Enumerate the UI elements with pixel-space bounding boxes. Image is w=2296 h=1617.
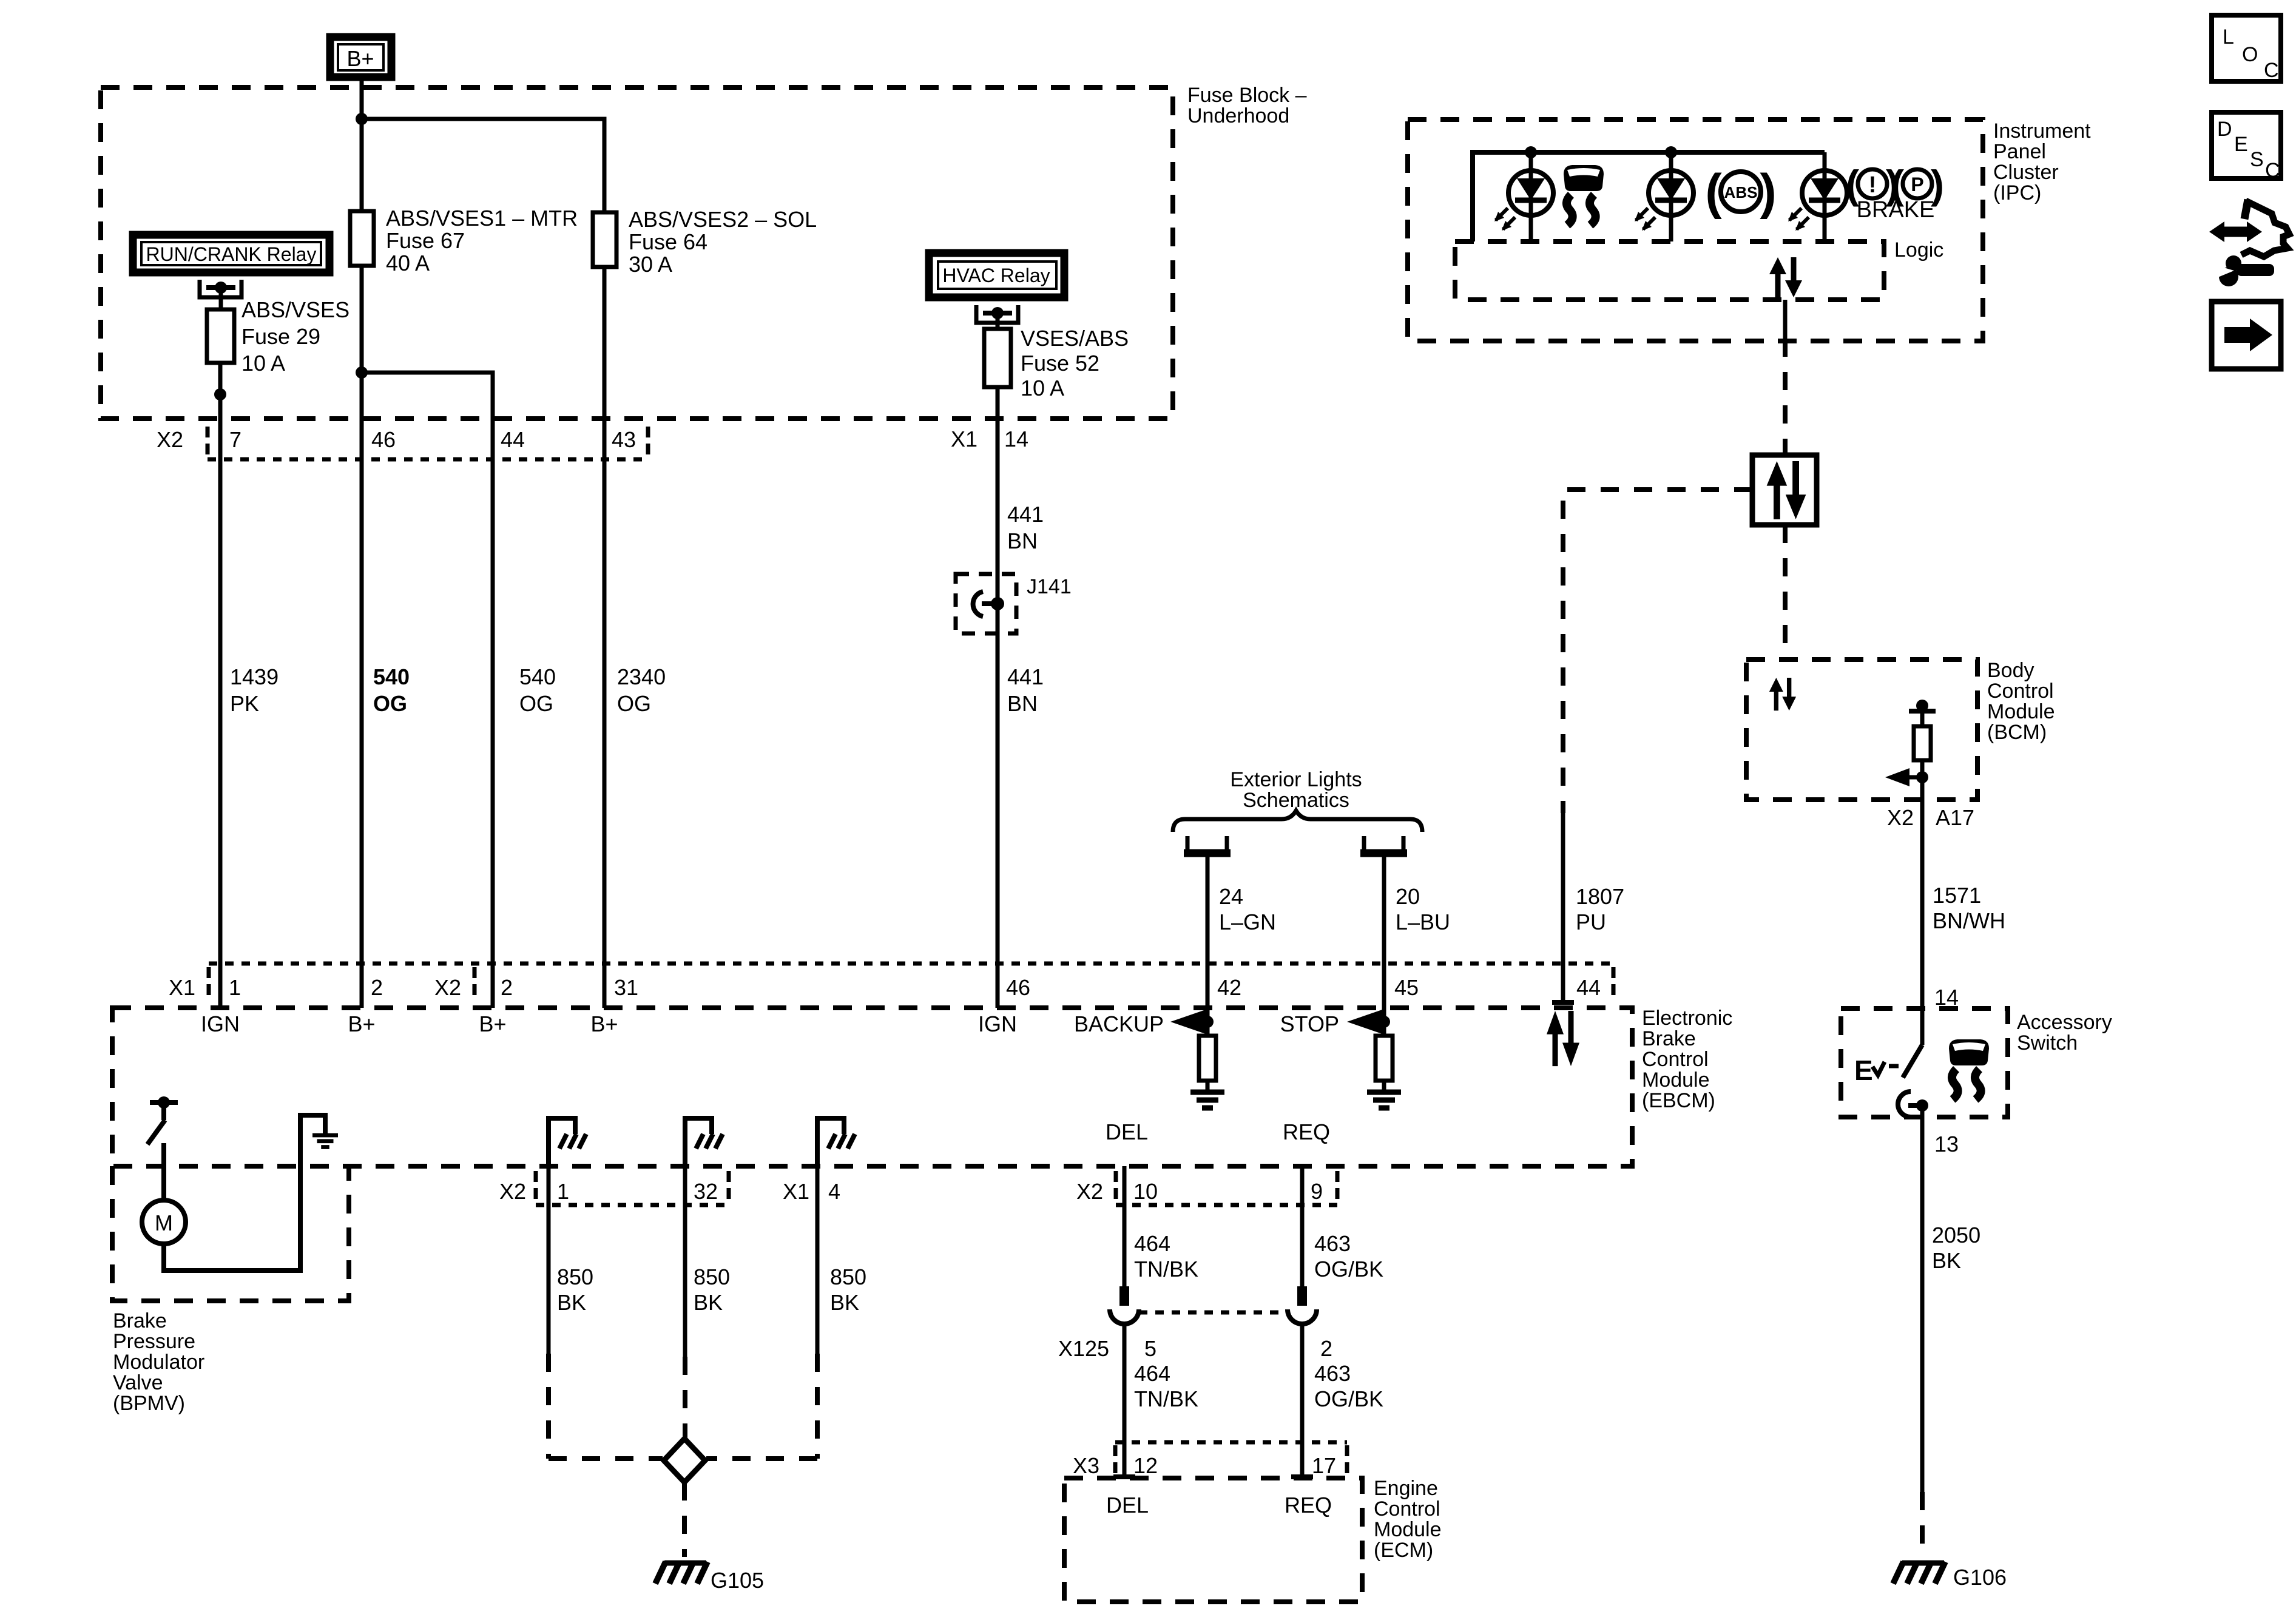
EBCM serial data arrows [1547, 1011, 1579, 1066]
svg-text:4: 4 [828, 1179, 840, 1204]
svg-text:BK: BK [694, 1290, 723, 1315]
svg-text:31: 31 [614, 975, 638, 1000]
svg-text:5: 5 [1144, 1336, 1156, 1361]
svg-text:X125: X125 [1058, 1336, 1109, 1361]
svg-text:Module: Module [1374, 1518, 1442, 1541]
IPC logic dashed box [1455, 241, 1884, 300]
svg-text:540: 540 [373, 664, 410, 689]
svg-text:1571: 1571 [1933, 883, 1981, 908]
brace exterior lights [1173, 811, 1422, 832]
svg-text:Logic: Logic [1894, 238, 1943, 262]
wire 463 OG/BK upper [1302, 1166, 1383, 1288]
wire 540 OG pin46 to EBCM [362, 419, 410, 1008]
margin icon diagnostic car wrench [2209, 200, 2289, 286]
svg-text:Underhood: Underhood [1187, 104, 1289, 127]
svg-text:Control: Control [1642, 1048, 1709, 1071]
svg-text:Engine: Engine [1374, 1477, 1438, 1500]
svg-text:ABS/VSES2 – SOL: ABS/VSES2 – SOL [629, 207, 817, 232]
IPC lamp supply bus [1473, 152, 1825, 241]
svg-text:44: 44 [1576, 975, 1601, 1000]
wire 441 BN upper segment [998, 419, 1044, 574]
wire LED2 [1669, 152, 1673, 241]
svg-text:850: 850 [557, 1264, 593, 1289]
wire fuse 67 to pin 46 [360, 266, 364, 419]
wire 2340 OG pin43 to EBCM [604, 419, 666, 1008]
svg-text:540: 540 [519, 664, 556, 689]
svg-text:(EBCM): (EBCM) [1642, 1089, 1715, 1112]
svg-text:BN: BN [1007, 528, 1038, 553]
svg-text:(IPC): (IPC) [1993, 181, 2041, 204]
wire to pump motor [161, 1143, 166, 1201]
svg-text:ABS/VSES1 – MTR: ABS/VSES1 – MTR [386, 206, 578, 231]
connector row fuse block X2/X1 [157, 427, 1028, 459]
ground G105 [655, 1562, 764, 1593]
svg-text:Cluster: Cluster [1993, 161, 2059, 184]
svg-text:Pressure: Pressure [113, 1330, 195, 1353]
svg-text:24: 24 [1219, 884, 1243, 909]
HVAC relay output terminal bracket [976, 305, 1018, 329]
svg-text:X2: X2 [499, 1179, 526, 1204]
svg-text:X2: X2 [1887, 805, 1914, 830]
splice J141 [956, 574, 1072, 633]
svg-text:A17: A17 [1936, 805, 1974, 830]
wire motor return loop [164, 1115, 325, 1271]
ground lead 3 flag [817, 1118, 855, 1166]
icon traction control car [1564, 165, 1604, 225]
icon brake warning (!) (P) BRAKE [1846, 162, 1944, 223]
svg-text:E: E [2234, 133, 2248, 156]
connector stub backup lamp feed [1184, 836, 1231, 853]
svg-text:7: 7 [229, 427, 241, 452]
power symbol B+ [330, 37, 391, 77]
svg-text:850: 850 [830, 1264, 866, 1289]
svg-text:30 A: 30 A [629, 252, 672, 277]
svg-text:): ) [1760, 164, 1776, 220]
splice diamond ground [664, 1439, 705, 1482]
svg-text:Accessory: Accessory [2017, 1011, 2112, 1034]
LED1 traction indicator [1494, 170, 1553, 231]
switch pump pressure contact [147, 1096, 178, 1144]
fuse F52 VSES/ABS [984, 326, 1129, 400]
svg-text:Control: Control [1987, 680, 2054, 703]
svg-text:C: C [2264, 59, 2279, 82]
svg-text:TN/BK: TN/BK [1134, 1386, 1198, 1411]
svg-text:464: 464 [1134, 1361, 1170, 1386]
node on wire 1439 [214, 388, 226, 400]
svg-text:463: 463 [1314, 1361, 1351, 1386]
svg-text:L–BU: L–BU [1396, 910, 1450, 934]
svg-text:X2: X2 [1076, 1179, 1103, 1204]
switch accessory internals [1854, 1008, 1928, 1117]
svg-text:C: C [2265, 159, 2280, 182]
wire LED3 [1823, 152, 1827, 241]
svg-text:Modulator: Modulator [113, 1351, 204, 1374]
node bus at LED2 [1665, 146, 1677, 158]
svg-text:O: O [2242, 43, 2258, 66]
svg-text:42: 42 [1217, 975, 1241, 1000]
svg-text:IGN: IGN [978, 1011, 1017, 1036]
svg-text:Fuse 29: Fuse 29 [241, 324, 320, 349]
svg-text:BRAKE: BRAKE [1857, 197, 1935, 223]
svg-text:BK: BK [1932, 1248, 1961, 1273]
svg-text:463: 463 [1314, 1231, 1351, 1256]
svg-text:2: 2 [501, 975, 513, 1000]
svg-text:Fuse Block –: Fuse Block – [1187, 84, 1307, 107]
svg-text:X1: X1 [951, 427, 977, 451]
serial data interface box [1752, 455, 1817, 525]
svg-text:G106: G106 [1953, 1565, 2007, 1590]
svg-text:Control: Control [1374, 1497, 1440, 1521]
LED2 ABS indicator [1635, 170, 1693, 231]
ground internal backup [1190, 1092, 1224, 1108]
svg-text:S: S [2250, 148, 2264, 171]
EBCM dashed box [112, 1008, 1632, 1166]
wire dashed ground gather left [549, 1456, 663, 1461]
svg-text:B+: B+ [479, 1011, 506, 1036]
svg-text:HVAC Relay: HVAC Relay [942, 265, 1050, 286]
wire LED1 [1529, 152, 1533, 241]
svg-text:X2: X2 [434, 975, 461, 1000]
ground lead 2 flag [685, 1118, 723, 1166]
svg-text:BN/WH: BN/WH [1933, 908, 2005, 933]
svg-text:(: ( [1705, 164, 1722, 220]
connector BCM X2 A17 [1887, 805, 1974, 830]
svg-text:441: 441 [1007, 664, 1044, 689]
svg-text:E: E [1854, 1055, 1873, 1086]
wire 20 L-BU [1384, 857, 1450, 1022]
svg-text:13: 13 [1934, 1132, 1959, 1156]
wire dashed logic to interface [1783, 339, 1788, 455]
svg-text:X2: X2 [157, 427, 183, 452]
svg-text:RUN/CRANK Relay: RUN/CRANK Relay [146, 243, 317, 265]
BCM switch sense pullup [1885, 700, 1936, 800]
svg-text:J141: J141 [1027, 575, 1072, 598]
svg-text:Electronic: Electronic [1642, 1007, 1732, 1030]
label Brake Pressure Modulator Valve (BPMV) [113, 1309, 204, 1415]
ground pump internal [312, 1135, 338, 1147]
wire B+ feed [360, 77, 364, 211]
svg-text:Module: Module [1642, 1068, 1710, 1092]
svg-text:Brake: Brake [1642, 1027, 1696, 1050]
resistor backup pulldown [1199, 1022, 1216, 1092]
node fuse 67 branch [356, 366, 368, 379]
label Engine Control Module (ECM) [1374, 1477, 1442, 1562]
svg-text:DEL: DEL [1106, 1493, 1149, 1517]
wire bus to fuse 64 [362, 119, 604, 212]
connector row EBCM bottom X2 DEL/REQ [1076, 1171, 1337, 1205]
svg-text:X1: X1 [783, 1179, 809, 1204]
wire 1807 PU dashed from IPC [1552, 490, 1752, 1002]
wire 464 TN/BK lower [1113, 1324, 1198, 1477]
svg-text:2: 2 [371, 975, 383, 1000]
fuse F29 ABS/VSES [207, 297, 349, 376]
svg-text:Exterior Lights: Exterior Lights [1230, 768, 1362, 791]
label X125 row [1058, 1336, 1332, 1361]
fuse F67 ABS/VSES1-MTR [350, 206, 578, 275]
wire 24 L-GN [1207, 857, 1276, 1022]
inline connector X125 REQ [1288, 1286, 1317, 1324]
svg-text:M: M [155, 1210, 173, 1235]
svg-text:45: 45 [1394, 975, 1419, 1000]
wire dashed interface to BCM [1783, 525, 1788, 660]
svg-text:Valve: Valve [113, 1371, 163, 1394]
svg-text:17: 17 [1312, 1453, 1336, 1478]
svg-text:40 A: 40 A [386, 251, 430, 275]
svg-text:BK: BK [557, 1290, 586, 1315]
svg-text:Module: Module [1987, 700, 2055, 723]
connector row EBCM bottom grounds [499, 1171, 840, 1205]
wire dashed ground gather right [706, 1456, 817, 1461]
svg-text:464: 464 [1134, 1231, 1170, 1256]
wire 850 BK lead2 [685, 1166, 730, 1440]
ground lead 1 flag [549, 1118, 586, 1166]
svg-text:14: 14 [1934, 985, 1959, 1010]
svg-text:14: 14 [1004, 427, 1028, 451]
connector row EBCM top X1/X2 [169, 964, 1613, 1000]
label Instrument Panel Cluster (IPC) [1993, 120, 2091, 204]
svg-text:OG/BK: OG/BK [1314, 1257, 1383, 1281]
svg-text:X1: X1 [169, 975, 195, 1000]
svg-text:!: ! [1869, 172, 1877, 198]
svg-text:(BPMV): (BPMV) [113, 1392, 185, 1415]
label Fuse Block - Underhood [1187, 84, 1307, 127]
ECM dashed box [1064, 1478, 1362, 1602]
svg-text:B+: B+ [590, 1011, 618, 1036]
svg-text:PU: PU [1576, 910, 1606, 934]
svg-text:REQ: REQ [1285, 1493, 1332, 1517]
BPMV dashed box [112, 1166, 349, 1301]
ground internal stop [1367, 1092, 1401, 1108]
svg-text:441: 441 [1007, 502, 1044, 527]
svg-text:1807: 1807 [1576, 884, 1624, 909]
svg-text:2: 2 [1320, 1336, 1332, 1361]
wire 850 BK lead3 [817, 1166, 866, 1459]
svg-text:Switch: Switch [2017, 1031, 2078, 1055]
svg-text:Panel: Panel [1993, 140, 2046, 163]
svg-text:46: 46 [1006, 975, 1030, 1000]
label Electronic Brake Control Module (EBCM) [1642, 1007, 1732, 1112]
wire dashed splice to G105 [682, 1482, 687, 1557]
svg-text:1: 1 [557, 1179, 569, 1204]
svg-text:TN/BK: TN/BK [1134, 1257, 1198, 1281]
wire 1571 BN/WH [1922, 800, 2005, 1008]
svg-text:9: 9 [1311, 1179, 1323, 1204]
relay K HVAC Relay [929, 253, 1064, 297]
relay output terminal bracket [200, 280, 241, 309]
label Body Control Module (BCM) [1987, 659, 2055, 744]
svg-text:Fuse 52: Fuse 52 [1021, 351, 1099, 376]
svg-text:OG: OG [617, 691, 651, 716]
svg-text:Instrument: Instrument [1993, 120, 2091, 143]
svg-text:OG: OG [373, 691, 407, 716]
connector X125 dotted link [1139, 1311, 1288, 1315]
relay K RUN/CRANK Relay [133, 235, 329, 272]
svg-text:(BCM): (BCM) [1987, 721, 2047, 744]
svg-text:OG/BK: OG/BK [1314, 1386, 1383, 1411]
svg-text:2340: 2340 [617, 664, 666, 689]
wire 540 OG pin44 to EBCM [493, 419, 556, 1008]
STOP signal arrow [1280, 1010, 1390, 1036]
icon accessory switch car [1949, 1039, 1989, 1099]
svg-text:D: D [2217, 118, 2232, 141]
svg-text:20: 20 [1396, 884, 1420, 909]
node bus at LED1 [1525, 146, 1537, 158]
svg-text:P: P [1911, 174, 1923, 195]
svg-text:ABS/VSES: ABS/VSES [241, 297, 349, 322]
wire 2050 BK [1922, 1117, 1980, 1557]
fuse block underhood dashed box [101, 87, 1173, 419]
svg-text:BN: BN [1007, 691, 1038, 716]
LED3 brake indicator [1788, 170, 1847, 231]
svg-text:DEL: DEL [1106, 1119, 1148, 1144]
node B+ bus junction [356, 113, 368, 125]
svg-text:ABS: ABS [1724, 183, 1758, 201]
wire 464 TN/BK upper [1124, 1166, 1198, 1288]
svg-text:32: 32 [694, 1179, 718, 1204]
ground G106 [1893, 1562, 2007, 1590]
svg-text:10 A: 10 A [1021, 376, 1064, 400]
svg-text:STOP: STOP [1280, 1011, 1339, 1036]
body control module BCM dashed box [1746, 660, 1977, 800]
svg-text:(ECM): (ECM) [1374, 1539, 1433, 1562]
wire fuse 52 to pin 14 [996, 387, 1000, 574]
svg-text:BACKUP: BACKUP [1074, 1011, 1164, 1036]
instrument panel cluster IPC dashed box [1408, 120, 1983, 341]
wire logic output [1783, 300, 1788, 339]
margin icon LOC box [2212, 15, 2281, 82]
connector row X3 ECM [1073, 1442, 1347, 1478]
svg-text:L: L [2223, 25, 2234, 49]
BACKUP signal arrow [1074, 1010, 1214, 1036]
svg-text:44: 44 [501, 427, 525, 452]
label Accessory Switch [2017, 1011, 2112, 1055]
svg-text:PK: PK [230, 691, 259, 716]
wire 1439 PK pin7 to EBCM [220, 419, 279, 1008]
svg-text:43: 43 [612, 427, 636, 452]
svg-text:Fuse 67: Fuse 67 [386, 228, 465, 253]
wire fuse 64 to pin 43 [603, 267, 607, 419]
svg-text:BK: BK [830, 1290, 859, 1315]
svg-text:Fuse 64: Fuse 64 [629, 229, 707, 254]
svg-text:OG: OG [519, 691, 553, 716]
svg-text:10: 10 [1133, 1179, 1158, 1204]
accessory switch dashed box [1841, 1008, 2008, 1117]
svg-text:B+: B+ [346, 46, 374, 71]
label Exterior Lights Schematics [1230, 768, 1362, 812]
svg-text:Body: Body [1987, 659, 2034, 682]
wire branch to pin 44 [362, 373, 493, 419]
margin icon forward arrow box [2212, 302, 2281, 369]
fuse F64 ABS/VSES2-SOL [593, 207, 817, 277]
inline connector X125 DEL [1110, 1286, 1139, 1324]
BCM serial data arrows [1769, 678, 1796, 711]
wire 463 OG/BK lower [1291, 1324, 1383, 1477]
svg-text:G105: G105 [711, 1568, 764, 1593]
motor M pump [142, 1200, 186, 1244]
svg-text:L–GN: L–GN [1219, 910, 1276, 934]
resistor stop pulldown [1376, 1022, 1393, 1092]
svg-text:46: 46 [371, 427, 396, 452]
icon ABS symbol [1705, 164, 1776, 220]
svg-text:2050: 2050 [1932, 1223, 1980, 1247]
svg-text:1439: 1439 [230, 664, 279, 689]
svg-text:850: 850 [694, 1264, 730, 1289]
connector stub stop lamp feed [1360, 836, 1407, 853]
svg-text:12: 12 [1133, 1453, 1158, 1478]
svg-text:IGN: IGN [201, 1011, 240, 1036]
svg-text:1: 1 [229, 975, 241, 1000]
svg-text:Brake: Brake [113, 1309, 167, 1332]
svg-text:B+: B+ [348, 1011, 375, 1036]
svg-text:VSES/ABS: VSES/ABS [1021, 326, 1129, 351]
svg-text:REQ: REQ [1283, 1119, 1330, 1144]
wire 441 BN lower segment [998, 633, 1044, 1008]
margin icon DESC box [2212, 112, 2281, 182]
logic up down arrows [1769, 257, 1802, 297]
svg-text:X3: X3 [1073, 1453, 1099, 1478]
wire fuse 29 to pin 7 [218, 363, 223, 419]
svg-text:10 A: 10 A [241, 351, 285, 376]
wire 850 BK lead1 [549, 1166, 593, 1459]
